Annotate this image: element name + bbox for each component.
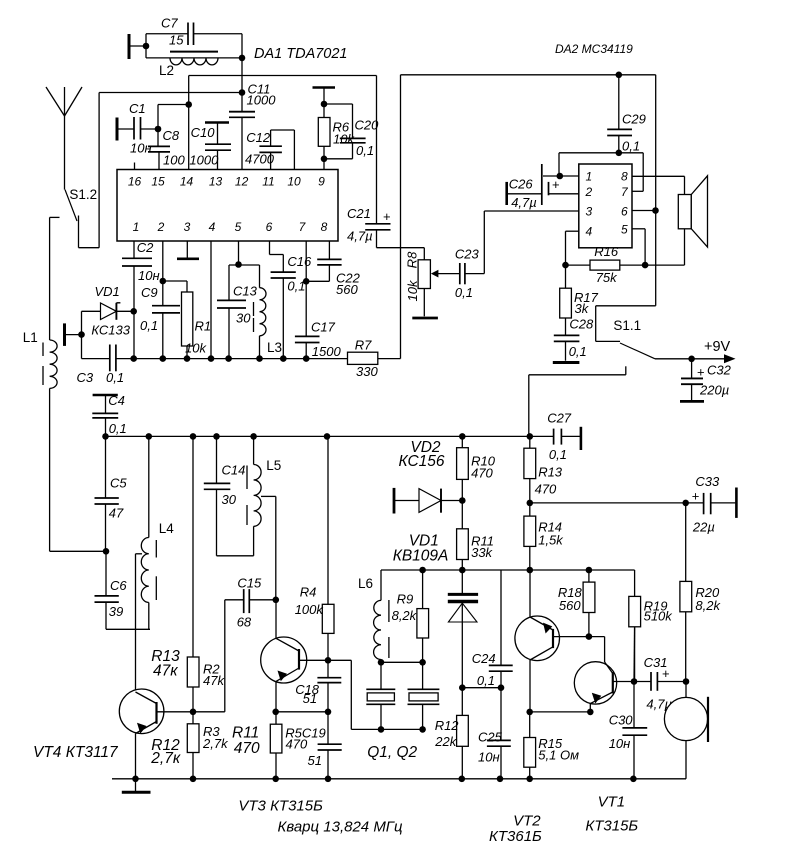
svg-text:L4: L4 <box>159 521 175 536</box>
svg-text:4: 4 <box>209 220 216 234</box>
svg-text:4,7µ: 4,7µ <box>511 195 537 210</box>
svg-text:560: 560 <box>336 282 358 297</box>
junction <box>527 433 534 440</box>
node <box>419 567 426 574</box>
svg-text:12: 12 <box>235 175 249 189</box>
diode VD1 KC133 <box>82 284 134 338</box>
wire <box>193 600 225 712</box>
junction <box>303 355 310 362</box>
capacitor C8 <box>148 128 185 170</box>
label Q1 Q2 <box>367 744 417 761</box>
ground <box>177 241 199 259</box>
terminal bar <box>116 118 119 141</box>
svg-text:C14: C14 <box>222 463 246 478</box>
capacitor C10 <box>189 123 231 170</box>
svg-text:C12: C12 <box>246 130 271 145</box>
svg-text:C23: C23 <box>455 247 480 262</box>
ground <box>122 779 151 793</box>
wire <box>529 375 626 437</box>
wire <box>633 627 636 728</box>
svg-text:10н: 10н <box>478 750 500 765</box>
svg-text:R7: R7 <box>355 338 372 353</box>
svg-text:C3: C3 <box>77 370 94 385</box>
capacitor C16 <box>271 254 312 359</box>
switch S1.1 <box>596 306 656 359</box>
node <box>103 548 110 555</box>
wire bus <box>112 778 686 780</box>
wire pin4 <box>566 231 579 288</box>
node <box>78 331 85 338</box>
capacitor C3 <box>77 345 125 386</box>
svg-text:68: 68 <box>237 615 252 630</box>
svg-text:C25: C25 <box>478 729 503 744</box>
svg-text:8: 8 <box>321 220 328 234</box>
node <box>143 43 150 50</box>
junction <box>497 776 504 783</box>
svg-text:8,2k: 8,2k <box>695 598 721 613</box>
antenna <box>46 87 82 190</box>
svg-text:220µ: 220µ <box>699 383 729 398</box>
node <box>272 709 279 716</box>
terminal bar <box>65 323 82 346</box>
svg-text:470: 470 <box>471 466 493 481</box>
node <box>562 262 569 269</box>
resistor R16 <box>566 244 646 285</box>
svg-text:C15: C15 <box>237 576 262 591</box>
resistor R12 <box>434 688 468 779</box>
svg-text:2: 2 <box>585 185 593 199</box>
svg-text:5: 5 <box>621 222 628 236</box>
resistor R19 <box>629 570 673 682</box>
terminal bar <box>313 86 336 89</box>
resistor R20 <box>680 503 722 682</box>
svg-text:1: 1 <box>133 220 140 234</box>
svg-text:330: 330 <box>356 364 378 379</box>
svg-text:470: 470 <box>286 737 308 752</box>
resistor R10 <box>457 436 496 500</box>
svg-text:C26: C26 <box>509 177 534 192</box>
svg-text:C2: C2 <box>137 240 154 255</box>
junction <box>630 776 637 783</box>
node <box>325 709 332 716</box>
svg-text:C9: C9 <box>141 285 158 300</box>
switch contact <box>625 366 627 375</box>
wire pin7 <box>632 190 643 192</box>
svg-text:13: 13 <box>209 175 223 189</box>
svg-text:100: 100 <box>163 153 185 168</box>
node <box>235 261 242 268</box>
svg-text:C32: C32 <box>707 363 732 378</box>
svg-text:C13: C13 <box>233 284 258 299</box>
label quartz <box>278 819 403 836</box>
node <box>587 709 594 716</box>
svg-text:1500: 1500 <box>312 344 342 359</box>
resistor R17 <box>560 288 599 318</box>
label R13 47k <box>151 648 180 680</box>
node <box>459 497 466 504</box>
capacitor C32 <box>681 359 732 400</box>
wire <box>79 93 243 248</box>
svg-text:+: + <box>692 489 700 504</box>
svg-text:30: 30 <box>236 311 251 326</box>
wire <box>328 660 423 729</box>
inductor L4 <box>141 436 174 629</box>
wire pin5 <box>632 229 645 265</box>
junction <box>250 433 257 440</box>
svg-text:C33: C33 <box>695 474 720 489</box>
node <box>688 356 695 363</box>
transistor VT4 KT3117 <box>33 689 193 779</box>
svg-text:C20: C20 <box>355 118 380 133</box>
junction <box>459 776 466 783</box>
svg-text:10k: 10k <box>405 279 420 301</box>
svg-text:R4: R4 <box>300 585 317 600</box>
junction <box>190 776 197 783</box>
wire L4 tap <box>136 554 143 691</box>
label DA2 <box>555 42 633 56</box>
svg-text:+: + <box>697 365 705 380</box>
svg-text:22k: 22k <box>434 734 457 749</box>
svg-text:VT2: VT2 <box>513 813 541 830</box>
wire <box>381 661 423 663</box>
svg-text:470: 470 <box>535 482 557 497</box>
node <box>652 207 659 214</box>
node <box>239 89 246 96</box>
svg-text:5,1 Ом: 5,1 Ом <box>538 747 579 762</box>
svg-text:15: 15 <box>169 33 184 48</box>
node <box>378 726 385 733</box>
svg-text:1000: 1000 <box>247 93 277 108</box>
svg-text:2,7к: 2,7к <box>150 750 181 767</box>
capacitor C2 <box>122 240 160 359</box>
node <box>526 709 533 716</box>
junction <box>256 355 263 362</box>
inductor L1 <box>23 330 106 551</box>
capacitor C12 <box>245 130 294 170</box>
svg-text:16: 16 <box>128 175 142 189</box>
capacitor C4 <box>92 393 126 436</box>
varicap VD1 KB109A <box>448 570 478 688</box>
svg-text:14: 14 <box>180 175 194 189</box>
resistor R14 <box>524 503 564 570</box>
node <box>459 567 466 574</box>
wire <box>241 117 243 169</box>
wire pin8 <box>632 176 685 194</box>
svg-text:5: 5 <box>235 220 242 234</box>
svg-text:C4: C4 <box>108 393 125 408</box>
svg-text:39: 39 <box>109 604 123 619</box>
svg-text:КВ109А: КВ109А <box>393 548 449 565</box>
svg-text:0,1: 0,1 <box>622 139 640 154</box>
label VT3 <box>238 798 323 815</box>
node <box>325 657 332 664</box>
svg-text:VT1: VT1 <box>598 794 626 811</box>
wire pin6 C16 <box>270 241 284 272</box>
wire pin3 <box>484 210 579 212</box>
capacitor C18 <box>295 660 341 712</box>
svg-text:75k: 75k <box>596 270 618 285</box>
op-amp U2 DA2 MC34119 <box>579 164 632 248</box>
node <box>459 684 466 691</box>
wire pin4 <box>210 241 212 359</box>
node <box>631 678 638 685</box>
capacitor C6 <box>95 551 151 629</box>
node <box>155 126 162 133</box>
svg-text:30: 30 <box>222 492 237 507</box>
svg-text:C24: C24 <box>472 651 496 666</box>
svg-text:0,1: 0,1 <box>549 447 567 462</box>
terminal bar <box>93 394 118 397</box>
resistor R9 <box>392 570 429 662</box>
svg-text:6: 6 <box>266 220 273 234</box>
wire <box>401 75 656 306</box>
capacitor C31 <box>634 655 686 712</box>
capacitor C33 <box>686 474 736 535</box>
junction <box>280 355 287 362</box>
svg-text:S1.2: S1.2 <box>69 187 97 202</box>
terminal bar <box>735 488 738 518</box>
svg-text:47к: 47к <box>153 663 178 680</box>
svg-text:4,7µ: 4,7µ <box>347 229 373 244</box>
switch S1.2 <box>65 187 97 248</box>
resistor R2 <box>187 436 225 711</box>
node <box>130 308 137 315</box>
diode VD2 KC156 <box>394 488 462 514</box>
resistor R18 <box>558 570 595 637</box>
wire <box>377 248 425 260</box>
svg-text:10k: 10k <box>185 341 207 356</box>
svg-text:КТ315Б: КТ315Б <box>585 818 638 835</box>
svg-text:C27: C27 <box>547 411 572 426</box>
capacitor C29 <box>607 75 646 154</box>
svg-text:1,5k: 1,5k <box>538 533 564 548</box>
junction <box>184 355 191 362</box>
svg-text:C6: C6 <box>110 578 127 593</box>
node <box>642 262 649 269</box>
contact to L1 <box>50 217 60 340</box>
svg-text:8,2k: 8,2k <box>392 608 418 623</box>
wire <box>276 711 328 713</box>
node <box>616 72 623 79</box>
capacitor C26 <box>507 164 579 210</box>
transistor VT3 KT315B <box>261 600 307 712</box>
inductor L3 <box>254 265 283 359</box>
capacitor C20 <box>324 104 379 159</box>
svg-text:R16: R16 <box>594 244 619 259</box>
svg-text:C17: C17 <box>311 320 336 335</box>
label R12 2.7k <box>150 737 181 767</box>
wire <box>462 687 501 689</box>
node <box>527 567 534 574</box>
junction <box>190 433 197 440</box>
capacitor C23 <box>438 247 485 301</box>
wire <box>323 146 325 169</box>
wire <box>559 153 643 192</box>
wire bus <box>106 435 530 437</box>
resistor R1 <box>163 281 211 359</box>
svg-text:R13: R13 <box>538 465 563 480</box>
svg-text:2: 2 <box>157 220 165 234</box>
junction <box>102 433 109 440</box>
svg-text:8: 8 <box>621 170 628 184</box>
svg-text:КТ361Б: КТ361Б <box>489 828 542 845</box>
wire <box>645 229 684 265</box>
node <box>321 101 328 108</box>
wire rail <box>381 569 635 571</box>
label VD2 <box>399 439 445 470</box>
svg-text:3: 3 <box>586 205 593 219</box>
svg-text:10н: 10н <box>609 736 631 751</box>
node <box>239 55 246 62</box>
wire <box>423 289 425 317</box>
svg-text:КС133: КС133 <box>91 323 130 338</box>
svg-text:C16: C16 <box>287 254 312 269</box>
svg-text:R12: R12 <box>435 718 460 733</box>
svg-text:0,1: 0,1 <box>106 370 124 385</box>
svg-text:DA2 MC34119: DA2 MC34119 <box>555 42 633 56</box>
svg-text:0,1: 0,1 <box>140 318 158 333</box>
svg-text:L3: L3 <box>267 340 282 355</box>
junction <box>208 355 215 362</box>
node <box>321 156 328 163</box>
junction <box>325 776 332 783</box>
node <box>683 678 690 685</box>
svg-text:VT3 КТ315Б: VT3 КТ315Б <box>238 798 323 815</box>
capacitor C28 <box>554 317 594 361</box>
node <box>527 500 534 507</box>
svg-text:51: 51 <box>308 753 322 768</box>
ground <box>680 400 704 403</box>
microphone BM1 <box>664 682 708 779</box>
svg-text:9: 9 <box>318 175 325 189</box>
wire <box>530 502 686 504</box>
svg-text:Q1, Q2: Q1, Q2 <box>367 744 417 761</box>
svg-text:4700: 4700 <box>245 152 275 167</box>
svg-text:11: 11 <box>262 175 274 189</box>
svg-text:C29: C29 <box>622 112 646 127</box>
svg-text:2,7k: 2,7k <box>202 736 229 751</box>
wire <box>81 311 83 358</box>
wire pin6 <box>632 210 656 212</box>
junction <box>526 776 533 783</box>
node <box>498 684 505 691</box>
wire VT3 base <box>299 659 328 661</box>
resistor R5 <box>270 712 325 779</box>
wire pin1 <box>543 175 579 177</box>
node <box>303 278 310 285</box>
wire <box>189 76 377 170</box>
wire <box>483 211 485 274</box>
label R11 470 <box>232 725 260 758</box>
svg-text:+: + <box>552 177 560 192</box>
junction <box>459 433 466 440</box>
junction <box>130 355 137 362</box>
node <box>419 659 426 666</box>
svg-text:1000: 1000 <box>189 153 219 168</box>
inductor L5 <box>247 436 281 555</box>
svg-text:470: 470 <box>234 740 260 757</box>
node <box>160 278 167 285</box>
power +9V <box>655 339 736 363</box>
pin 16 stub <box>134 163 136 170</box>
wire <box>241 34 243 111</box>
inductor L2 <box>146 52 242 78</box>
svg-text:C5: C5 <box>110 476 127 491</box>
svg-text:10н: 10н <box>138 268 160 283</box>
svg-text:4: 4 <box>586 225 593 239</box>
op-amp U1 DA1 TDA7021 <box>117 170 338 242</box>
svg-text:VT4 КТ3117: VT4 КТ3117 <box>33 744 119 761</box>
ground <box>412 317 438 320</box>
svg-text:3: 3 <box>184 220 191 234</box>
svg-text:0,1: 0,1 <box>455 285 473 300</box>
svg-text:0,1: 0,1 <box>356 143 374 158</box>
resistor R13 <box>524 436 563 503</box>
resistor R7 <box>348 338 379 380</box>
wire L5 tap <box>261 496 276 599</box>
svg-text:КС156: КС156 <box>399 453 445 470</box>
junction <box>160 355 167 362</box>
svg-text:100k: 100k <box>295 602 325 617</box>
potentiometer R8 <box>405 251 439 302</box>
svg-text:C10: C10 <box>191 125 216 140</box>
svg-text:47: 47 <box>109 506 124 521</box>
capacitor C5 <box>95 436 128 551</box>
svg-text:DA1 TDA7021: DA1 TDA7021 <box>254 46 348 62</box>
node <box>557 173 564 180</box>
svg-text:C1: C1 <box>129 101 146 116</box>
resistor R4 <box>295 436 334 660</box>
junction <box>213 433 220 440</box>
capacitor C19 <box>308 712 342 779</box>
node <box>616 150 623 157</box>
svg-text:R8: R8 <box>405 251 420 268</box>
svg-text:560: 560 <box>559 598 581 613</box>
speaker BA1 <box>678 176 707 247</box>
node <box>190 709 197 716</box>
wire <box>378 75 401 359</box>
wire pin5 <box>229 241 260 265</box>
svg-text:+9V: +9V <box>704 339 731 355</box>
capacitor C1 <box>117 101 158 156</box>
svg-text:6: 6 <box>621 205 628 219</box>
transistor VT1 KT315B <box>574 637 638 835</box>
wire <box>530 711 591 713</box>
junction <box>324 433 331 440</box>
capacitor C24 <box>472 570 513 688</box>
junction <box>132 776 139 783</box>
svg-text:L2: L2 <box>159 63 174 78</box>
capacitor C17 <box>295 320 342 360</box>
transistor VT2 KT361B <box>489 570 589 845</box>
node <box>586 633 593 640</box>
capacitor C25 <box>478 688 511 779</box>
label VD1 <box>393 533 449 565</box>
svg-text:L5: L5 <box>266 458 281 473</box>
resistor R11 <box>457 501 494 571</box>
capacitor C14 <box>204 436 254 555</box>
svg-text:22µ: 22µ <box>692 520 715 535</box>
wire pin7 <box>305 241 307 336</box>
capacitor C27 <box>530 411 580 463</box>
svg-text:C30: C30 <box>609 713 634 728</box>
label DA1 <box>254 46 348 62</box>
svg-text:C8: C8 <box>163 128 180 143</box>
svg-text:10н: 10н <box>130 141 152 156</box>
terminal bar <box>128 34 131 59</box>
capacitor C13 <box>217 265 258 359</box>
svg-text:L1: L1 <box>23 330 38 345</box>
